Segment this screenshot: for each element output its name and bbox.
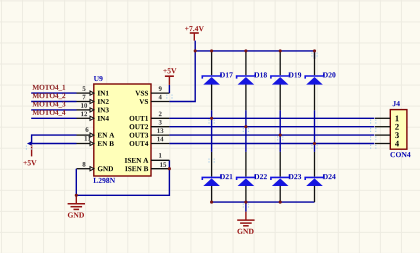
power port +7.4V <box>185 26 204 31</box>
value L298N <box>93 178 115 183</box>
pin 8 GND <box>77 168 91 170</box>
junction dots <box>194 49 197 52</box>
net label MOTO4_4 <box>32 110 65 116</box>
IC pin names <box>98 91 109 96</box>
wire bottom bus <box>212 201 315 203</box>
power port +5V left <box>27 141 32 146</box>
ground symbol left <box>75 195 77 203</box>
wire column D17-D21 <box>211 110 213 152</box>
net label MOTO4_2 <box>32 93 65 99</box>
pin 6 EN A <box>77 134 91 136</box>
wire GND pin to ISEN <box>76 160 169 195</box>
connector J4 refdes <box>393 101 400 106</box>
pin 1 ISEN A <box>151 159 169 161</box>
pin 4 J4 <box>375 143 390 145</box>
diode D21 <box>211 152 213 177</box>
compile marks <box>167 95 172 101</box>
wire OUT1 <box>169 117 374 119</box>
wire top bus <box>195 50 314 52</box>
pin 3 OUT2 <box>151 126 169 128</box>
pin 7 IN2 <box>77 101 91 103</box>
wire EN A <box>32 135 77 143</box>
wire column D18-D22 <box>245 110 247 152</box>
power port +5V top <box>168 85 170 93</box>
wire OUT3 <box>169 134 374 136</box>
wire MOTO4_4 <box>31 117 76 119</box>
wire +7.4V rail to VS pin <box>169 41 195 102</box>
pin 2 J4 <box>375 126 390 128</box>
net label MOTO4_1 <box>32 85 65 91</box>
diode D18 <box>245 52 247 76</box>
wire OUT2 <box>169 126 374 128</box>
refdes U9 <box>94 76 103 81</box>
diode D20 <box>314 52 316 76</box>
wire to center ground <box>245 202 247 212</box>
pin 10 IN3 <box>77 109 91 111</box>
connector J4 value CON4 <box>390 152 410 157</box>
wire EN B <box>32 143 77 145</box>
diode D22 <box>245 152 247 177</box>
pin 12 IN4 <box>77 117 91 119</box>
net label MOTO4_3 <box>32 102 65 108</box>
wire MOTO4_1 <box>31 92 76 94</box>
pin 2 OUT1 <box>151 117 169 119</box>
pin 9 VSS <box>151 92 169 94</box>
diode D24 <box>314 152 316 177</box>
diode D23 <box>279 152 281 177</box>
pin 1 J4 <box>375 117 390 119</box>
IC U9 body (L298N driver) <box>94 84 151 176</box>
pin 3 J4 <box>375 134 390 136</box>
diode D17 <box>211 52 213 76</box>
wire MOTO4_2 <box>31 101 76 103</box>
pin 5 IN1 <box>77 92 91 94</box>
pin 4 VS <box>151 101 169 103</box>
connector J4 body <box>390 110 407 150</box>
wire column D20-D24 <box>314 51 316 59</box>
pin 13 OUT3 <box>151 134 169 136</box>
diode D19 <box>279 52 281 76</box>
wire column D19-D23 <box>279 110 281 152</box>
ground symbol center <box>245 212 247 220</box>
pin 14 OUT4 <box>151 143 169 145</box>
pin 11 EN B <box>77 143 91 145</box>
wire MOTO4_3 <box>31 109 76 111</box>
wire OUT4 <box>169 143 374 145</box>
pin 15 ISEN B <box>151 168 169 170</box>
